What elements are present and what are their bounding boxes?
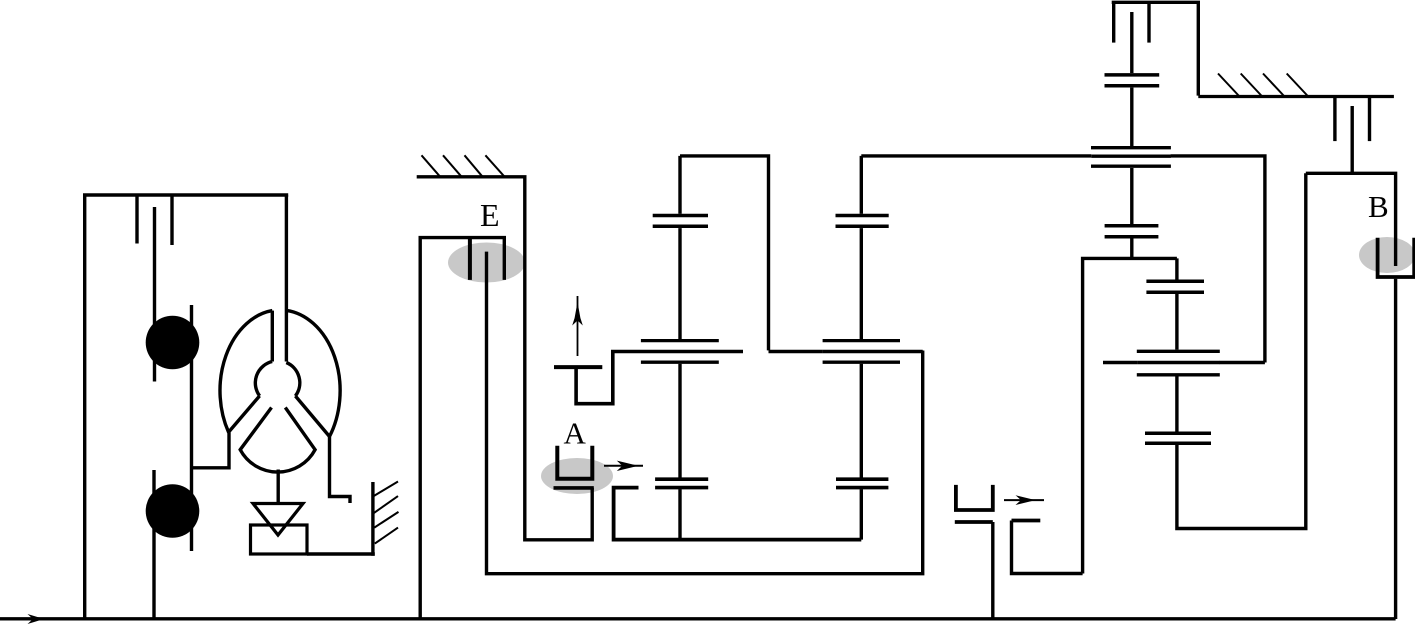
coupling tick 3 xyxy=(1112,2,1115,42)
clutch B highlight xyxy=(1359,237,1415,273)
carrier link right xyxy=(1083,258,1177,573)
arrow right head xyxy=(1016,495,1036,505)
clutch A inner bar xyxy=(554,486,594,490)
coupling T bar xyxy=(554,365,602,369)
sprocket 2 xyxy=(146,484,200,538)
clutch E plate xyxy=(468,238,472,280)
gear mesh mid right upper xyxy=(1105,224,1159,239)
gear mesh mid right lower xyxy=(1146,280,1204,295)
mesh long bar right xyxy=(1103,361,1265,364)
casing hatch line E xyxy=(417,177,593,540)
mesh long bar left xyxy=(611,350,743,353)
clutch E highlight xyxy=(448,243,525,283)
output shaft right xyxy=(1177,173,1306,528)
ground link line xyxy=(307,552,375,555)
clutch B box top xyxy=(1306,173,1396,266)
clutch B cup xyxy=(1378,238,1415,277)
one-way clutch housing xyxy=(251,525,308,554)
ring mesh mid xyxy=(823,339,900,364)
casing hatches right xyxy=(1218,74,1308,97)
gear mesh upper mid xyxy=(836,214,889,228)
up arrow xyxy=(577,296,579,356)
ring mesh left xyxy=(641,339,719,364)
planet shaft mid unit xyxy=(860,156,863,540)
planet shaft left unit xyxy=(678,156,681,538)
clutch A highlight xyxy=(541,458,613,494)
ring mesh bottom right xyxy=(1137,350,1220,377)
converter hub right arc xyxy=(286,363,300,397)
coupling tick 1 xyxy=(135,195,138,244)
arrow right shaft xyxy=(1004,499,1044,501)
casing hatches E xyxy=(422,155,505,177)
arrow A shaft xyxy=(604,465,643,467)
pump arm xyxy=(295,396,329,437)
bus arrow head xyxy=(28,614,45,624)
gear mesh upper left xyxy=(653,214,708,228)
coupling output step xyxy=(1012,521,1083,574)
converter slot left xyxy=(271,311,274,362)
ground wall hatches xyxy=(374,482,399,544)
svg-text:A: A xyxy=(564,415,587,450)
wire input frame left xyxy=(85,195,289,619)
converter hub left arc xyxy=(255,362,272,396)
stator wedge xyxy=(240,408,315,473)
clutch A cup xyxy=(557,446,592,479)
up arrow head xyxy=(572,302,583,326)
svg-text:B: B xyxy=(1368,189,1389,224)
one-way clutch triangle xyxy=(253,504,303,536)
ring link mid unit xyxy=(861,156,1265,363)
sprocket 1 xyxy=(146,316,200,370)
coupling tick 4 xyxy=(1147,2,1150,42)
wire turbine link xyxy=(192,433,230,468)
ring link left unit xyxy=(680,156,769,351)
bottom bus line xyxy=(0,617,1396,620)
clutch B shaft xyxy=(1350,106,1353,173)
converter input shaft xyxy=(285,195,288,362)
coupling right cup xyxy=(956,485,993,510)
coupling right shaft down xyxy=(991,522,994,619)
clutch E frame xyxy=(420,238,504,619)
coupling tick 6 xyxy=(1368,97,1371,142)
ring mesh top right xyxy=(1091,146,1171,168)
lower sprocket shaft xyxy=(152,470,155,619)
input shaft upper xyxy=(153,207,156,382)
clutch B drum xyxy=(1394,279,1397,619)
gear mesh bottom right xyxy=(1145,432,1211,446)
coupling output bar xyxy=(1012,519,1041,523)
input frame top right xyxy=(1112,2,1199,95)
stator stem xyxy=(277,470,280,504)
sun mesh left xyxy=(655,478,708,490)
mesh long bar mid xyxy=(769,350,923,353)
converter shell left xyxy=(220,311,272,433)
converter shell right xyxy=(286,310,350,503)
coupling tick 5 xyxy=(1333,97,1336,142)
sun mesh mid xyxy=(836,478,888,490)
arrow A head xyxy=(617,461,639,471)
casing hatch line right xyxy=(1198,95,1394,98)
coupling U link xyxy=(576,350,613,403)
coupling right bar xyxy=(955,520,993,524)
drum left unit xyxy=(614,488,862,540)
turbine arm xyxy=(229,396,260,432)
input shaft right xyxy=(1130,12,1133,258)
ground wall right xyxy=(371,482,374,556)
gear mesh top right xyxy=(1105,73,1160,88)
shaft to converter xyxy=(190,305,193,551)
svg-text:E: E xyxy=(480,197,500,233)
coupling tick 2 xyxy=(170,195,173,245)
clutch E output shaft xyxy=(487,252,923,574)
